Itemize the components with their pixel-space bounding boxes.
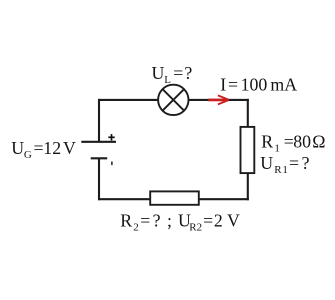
- wire left lower (battery minus plate to bottom corner): [98, 158, 100, 200]
- current direction arrow I (red): [208, 95, 229, 104]
- svg-text:UR1=?: UR1=?: [260, 153, 309, 176]
- wire bottom (left corner to right corner, through R2): [98, 198, 249, 200]
- svg-text:UL=?: UL=?: [152, 63, 193, 86]
- wire top (left corner to lamp): [98, 99, 158, 101]
- svg-text:I=100mA: I=100mA: [220, 75, 297, 95]
- wire right (top corner down through R1 to bottom corner): [247, 99, 249, 200]
- lamp U_L (circle with X cross): [158, 85, 188, 115]
- resistor R1 (right side, vertical): [241, 127, 255, 173]
- svg-text:R2=?;UR2=2V: R2=?;UR2=2V: [120, 211, 240, 234]
- svg-text:UG=12V: UG=12V: [11, 138, 76, 161]
- wire left upper (corner to battery plus plate): [98, 99, 100, 142]
- svg-text:R1=80Ω: R1=80Ω: [261, 131, 325, 154]
- battery minus tick: [111, 162, 113, 166]
- resistor R2 (bottom, horizontal): [150, 191, 199, 204]
- battery plus sign: [108, 134, 114, 140]
- wire top (lamp to right corner): [188, 99, 248, 101]
- battery positive plate (long): [81, 141, 116, 143]
- battery negative plate (short): [91, 157, 108, 159]
